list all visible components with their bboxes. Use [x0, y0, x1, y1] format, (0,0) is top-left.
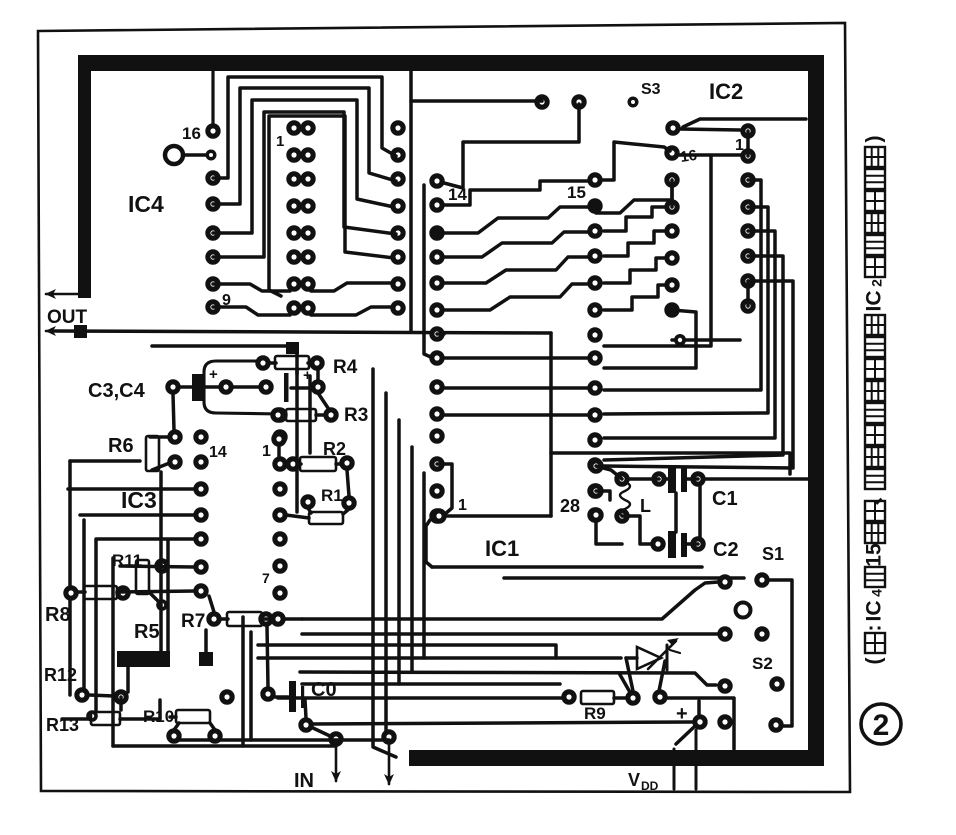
svg-text:R9: R9 [584, 704, 606, 723]
svg-text:R8: R8 [45, 604, 71, 626]
svg-text:L: L [640, 496, 651, 516]
svg-text:IN: IN [294, 770, 314, 792]
svg-text:R6: R6 [108, 435, 134, 457]
svg-text:S1: S1 [762, 544, 784, 564]
svg-text:): ) [863, 136, 886, 143]
svg-text:R4: R4 [333, 357, 358, 378]
svg-text:14: 14 [209, 444, 227, 461]
svg-text:+: + [209, 366, 218, 383]
svg-text:R1: R1 [321, 486, 343, 505]
svg-text:9: 9 [222, 292, 231, 309]
svg-text:R7: R7 [181, 611, 205, 632]
svg-text:C2: C2 [713, 539, 739, 561]
svg-text:IC2: IC2 [709, 79, 743, 104]
svg-text:14: 14 [448, 185, 467, 204]
svg-text::: : [863, 625, 886, 632]
svg-text:16: 16 [182, 124, 201, 143]
svg-text:IC: IC [863, 601, 886, 622]
svg-text:15: 15 [863, 543, 886, 567]
svg-text:IC: IC [863, 291, 886, 312]
svg-text:2: 2 [869, 279, 885, 287]
svg-text:16: 16 [679, 147, 698, 166]
svg-text:OUT: OUT [47, 307, 88, 328]
svg-text:IC4: IC4 [128, 191, 164, 217]
svg-text:R12: R12 [44, 665, 77, 685]
svg-text:1: 1 [276, 133, 284, 150]
svg-text:V: V [628, 770, 640, 790]
svg-text:(: ( [863, 658, 886, 665]
svg-text:IC1: IC1 [485, 536, 519, 561]
svg-text:1: 1 [262, 443, 271, 460]
svg-text:1: 1 [458, 497, 467, 514]
svg-text:IC3: IC3 [121, 487, 157, 513]
svg-text:DD: DD [641, 779, 659, 793]
svg-text:S2: S2 [752, 654, 773, 673]
svg-text:2: 2 [873, 709, 890, 742]
svg-text:7: 7 [262, 570, 270, 586]
svg-text:15: 15 [567, 183, 586, 202]
svg-text:C3,C4: C3,C4 [88, 380, 146, 402]
svg-text:S3: S3 [641, 81, 661, 98]
svg-text:C0: C0 [311, 679, 337, 701]
svg-text:R5: R5 [134, 621, 160, 643]
svg-text:4: 4 [869, 589, 885, 597]
svg-text:C1: C1 [712, 488, 738, 510]
svg-text:+: + [676, 703, 688, 725]
svg-text:R3: R3 [344, 405, 368, 426]
svg-text:28: 28 [560, 496, 580, 516]
